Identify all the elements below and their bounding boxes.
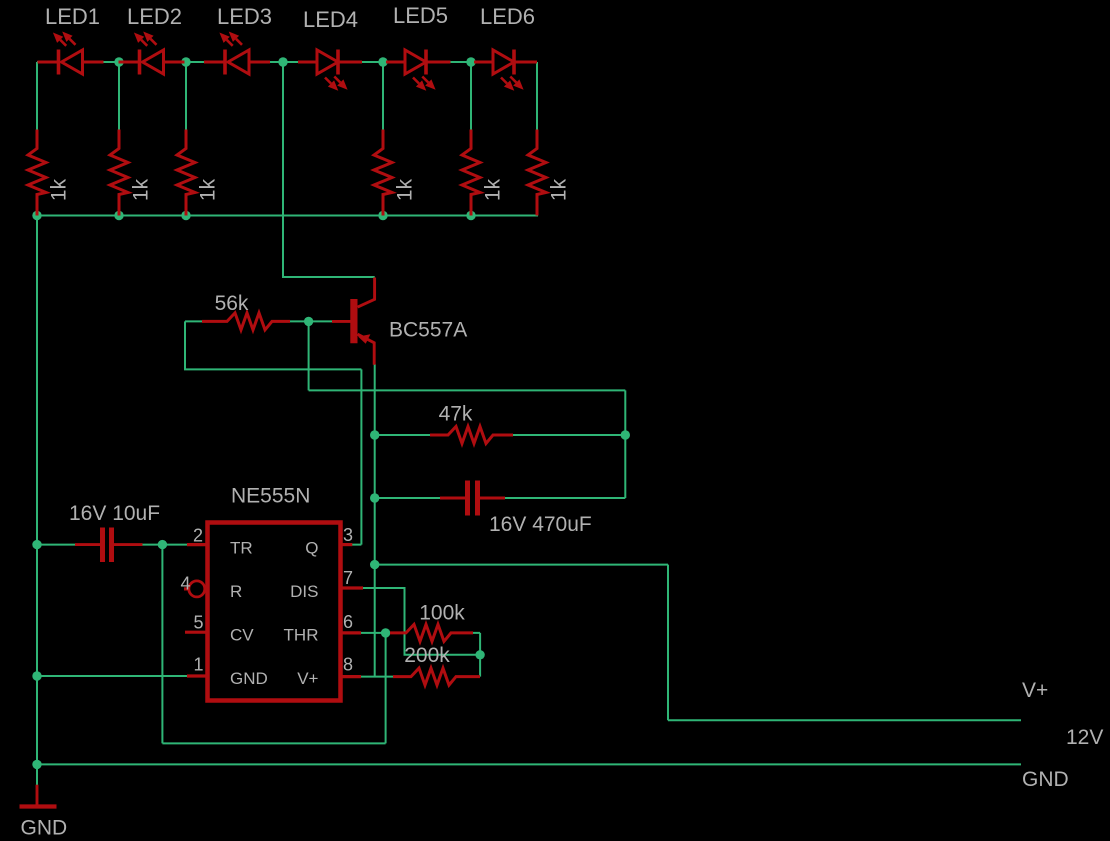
wire 100k-200k right link [479, 633, 481, 677]
svg-text:12V: 12V [1066, 726, 1103, 749]
wire base node drop [308, 321, 310, 390]
transistor Q1 BC557A [350, 299, 357, 343]
junction 100k/200k node [475, 650, 484, 659]
junction LED5/LED6 node [466, 57, 475, 66]
svg-text:16V 470uF: 16V 470uF [489, 513, 592, 536]
svg-text:LED2: LED2 [127, 4, 182, 29]
svg-text:7: 7 [343, 568, 353, 588]
junction LED2/LED3 node [181, 57, 190, 66]
wire column LED3/R3 [185, 62, 187, 131]
resistor R9 100k [390, 624, 473, 641]
junction V+ branch [370, 560, 379, 569]
LED LED4 [298, 61, 317, 64]
junction LED3/LED4 center node [278, 57, 287, 66]
wire base row [185, 320, 340, 322]
LED LED2 [119, 61, 140, 64]
pin 8 V+ stub [340, 675, 361, 678]
svg-text:100k: 100k [419, 602, 465, 625]
svg-text:R: R [230, 582, 242, 601]
junction bottom rail R4 [378, 211, 387, 220]
wire left GND rail vertical [36, 62, 38, 786]
svg-text:GND: GND [1022, 768, 1069, 791]
svg-text:LED6: LED6 [480, 4, 535, 29]
LED LED1 [38, 61, 59, 64]
resistor R1 1k [28, 130, 46, 216]
wire TR-THR link down [161, 545, 163, 744]
pin 4 R inverted stub [184, 587, 189, 590]
wire V+ right drop [667, 565, 669, 721]
pin 1 GND stub [187, 674, 207, 677]
svg-text:LED4: LED4 [303, 7, 358, 32]
wire 47k row [375, 434, 626, 436]
svg-text:LED3: LED3 [217, 4, 272, 29]
svg-text:4: 4 [180, 574, 190, 594]
pin 7 DIS stub [340, 586, 363, 589]
svg-text:GND: GND [230, 669, 268, 688]
junction bottom rail R2 [114, 211, 123, 220]
svg-text:1k: 1k [48, 178, 71, 201]
pin 5 CV stub [185, 631, 207, 634]
wire column LED2/R2 [118, 62, 120, 131]
wire THR riser [385, 633, 387, 744]
resistor R5 1k [462, 130, 480, 216]
svg-text:56k: 56k [215, 292, 249, 315]
svg-text:8: 8 [343, 655, 353, 675]
LED LED5 [386, 61, 405, 64]
junction 47k left [370, 430, 379, 439]
junction pin6 THR node [381, 628, 390, 637]
svg-text:LED5: LED5 [393, 3, 448, 28]
junction left rail pin2 [32, 540, 41, 549]
svg-text:5: 5 [193, 613, 203, 633]
wire pin6 THR row [340, 632, 480, 634]
svg-text:3: 3 [343, 525, 353, 545]
svg-text:1k: 1k [482, 178, 505, 201]
wire column R6 [536, 62, 538, 131]
wire emitter V+ drop [374, 364, 376, 677]
LED LED6 [474, 61, 493, 64]
junction LED1/LED2 node [114, 57, 123, 66]
wire column LED5/R4 [382, 62, 384, 131]
svg-text:16V 10uF: 16V 10uF [69, 502, 160, 525]
capacitor C2 16V 470uF [440, 497, 465, 500]
svg-text:V+: V+ [297, 669, 318, 688]
svg-text:1k: 1k [197, 178, 220, 201]
wire pin1 GND row [37, 675, 207, 677]
wire Q pin3 riser [360, 369, 362, 544]
svg-text:2: 2 [193, 526, 203, 546]
wire column LED6/R5 [470, 62, 472, 131]
svg-text:Q: Q [305, 539, 318, 558]
svg-text:1k: 1k [394, 178, 417, 201]
IC U1 NE555N timer body [208, 523, 341, 701]
junction left rail pin1 [32, 671, 41, 680]
wire 470uF row [375, 497, 626, 499]
wire V+ branch horizontal [375, 564, 668, 566]
pin 2 TR stub [187, 543, 207, 546]
wire bottom GND rail [37, 763, 1021, 765]
svg-text:NE555N: NE555N [231, 485, 310, 508]
resistor R3 1k [177, 130, 195, 216]
pin 6 THR stub [340, 631, 361, 634]
svg-text:TR: TR [230, 539, 253, 558]
wire pin3 Q link [340, 544, 361, 546]
junction LED4/LED5 node [378, 57, 387, 66]
wire V+ rail [668, 719, 1021, 721]
svg-text:1k: 1k [130, 178, 153, 201]
wire pin7 DIS link [340, 588, 480, 655]
junction 47k right [621, 430, 630, 439]
wire pin8 V+ row [340, 676, 394, 678]
wire 47k top link [309, 389, 626, 391]
ground symbol [36, 785, 39, 805]
junction left rail GND [32, 760, 41, 769]
svg-text:1k: 1k [548, 178, 571, 201]
wire TR-THR link bottom [162, 742, 385, 744]
capacitor C1 16V 10uF [75, 543, 100, 546]
resistor R2 1k [110, 130, 128, 216]
svg-text:V+: V+ [1022, 679, 1048, 702]
junction bottom rail R5 [466, 211, 475, 220]
resistor R8 47k [430, 427, 513, 444]
junction pin2 TR [158, 540, 167, 549]
wire 56k left loop [185, 321, 361, 369]
svg-text:6: 6 [343, 612, 353, 632]
resistor R6 1k [528, 130, 546, 216]
wire collector riser from LED center node [283, 62, 375, 277]
resistor R7 56k [202, 313, 290, 330]
wire LED top rail [37, 61, 537, 63]
svg-text:LED1: LED1 [45, 4, 100, 29]
svg-text:200k: 200k [404, 644, 450, 667]
resistor R10 200k [393, 668, 480, 685]
svg-text:GND: GND [21, 817, 68, 840]
junction bottom rail R3 [181, 211, 190, 220]
svg-text:DIS: DIS [290, 582, 318, 601]
wire pin2 TR row [37, 544, 207, 546]
pin 3 Q stub [340, 543, 352, 546]
svg-text:47k: 47k [439, 403, 473, 426]
wire resistor bottom rail [37, 215, 538, 217]
resistor R4 1k [374, 130, 392, 216]
wire 47k right link [624, 390, 626, 498]
junction bottom rail R1 [32, 211, 41, 220]
svg-text:CV: CV [230, 626, 254, 645]
svg-text:THR: THR [284, 626, 319, 645]
junction base node [304, 317, 313, 326]
LED LED3 [204, 61, 225, 64]
junction 470uF left [370, 493, 379, 502]
svg-text:1: 1 [193, 655, 203, 675]
svg-text:BC557A: BC557A [389, 319, 467, 342]
